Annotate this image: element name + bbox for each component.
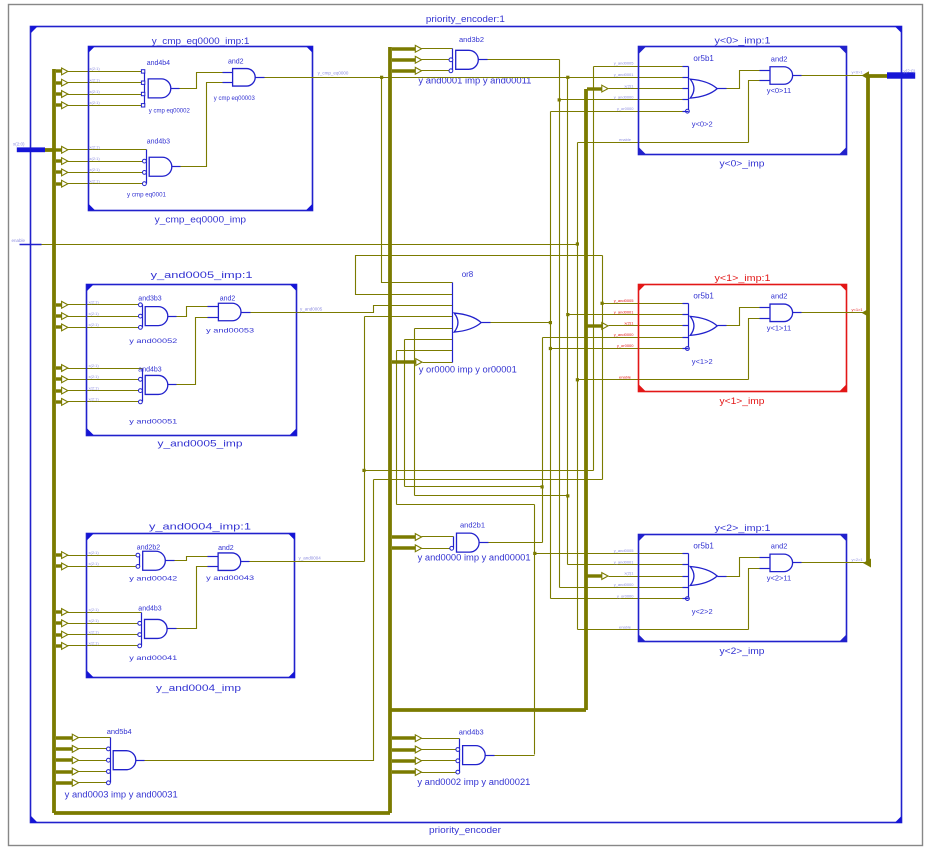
svg-text:y<2>1: y<2>1 (852, 557, 864, 562)
row into y0 pin5 (551, 111, 683, 113)
gate and2 y<0> (770, 67, 793, 85)
bus taps x(2) to or5b1 pin3 of three right blocks (587, 87, 602, 90)
svg-text:y and0000 imp y and00001: y and0000 imp y and00001 (418, 553, 531, 563)
svg-text:y_and0001: y_and0001 (614, 309, 635, 314)
input port enable (20, 244, 42, 246)
svg-text:enable: enable (619, 625, 632, 630)
or8 pin3 feeder from y_and0005 (297, 306, 453, 313)
svg-text:and2: and2 (220, 296, 236, 303)
bus taps to and5b4 inputs (56, 736, 73, 739)
svg-text:x(2:1): x(2:1) (90, 66, 101, 71)
block y_cmp_eq0000_imp (89, 47, 313, 211)
svg-text:x(2:1): x(2:1) (90, 89, 101, 94)
block y<0>_imp (639, 47, 847, 155)
wire or5b1 out to and2 pin1 y<1> (727, 308, 760, 326)
wire enable net (42, 244, 578, 246)
bus taps to and2b2 inputs (56, 553, 62, 556)
svg-text:y or0000 imp y or00001: y or0000 imp y or00001 (419, 365, 517, 375)
or8 pin2 feeder (356, 256, 603, 295)
crossover row 479 (374, 479, 603, 481)
svg-text:y_and0005: y_and0005 (300, 306, 323, 311)
gate and2 y_and0005 (218, 303, 241, 321)
svg-text:priority_encoder: priority_encoder (429, 825, 501, 835)
wire y_and0004 output row (250, 561, 365, 563)
svg-text:and4b4: and4b4 (147, 60, 170, 67)
svg-text:x(2:1): x(2:1) (90, 167, 101, 172)
svg-text:y and00051: y and00051 (129, 419, 178, 426)
wire and4b4 out to and2 pin1 (180, 73, 223, 89)
svg-text:and2: and2 (771, 292, 788, 301)
row into y2 pin4 (560, 587, 683, 589)
wire bus to output port (866, 74, 887, 78)
gate and2 y<1> (770, 304, 793, 322)
bus taps to and4b3 bottom inputs (392, 736, 416, 739)
bus x(2:0) center vertical (388, 47, 392, 813)
wire enable to and2 pin2 y<2> (749, 569, 760, 630)
svg-text:y and00041: y and00041 (129, 655, 178, 662)
wire net y_and0002 vertical (534, 505, 536, 755)
bus x(2:0) middle horizontal run (390, 708, 586, 712)
wire x bus port to left bus (45, 148, 56, 152)
row into y0 pin1 (594, 66, 683, 68)
svg-text:x(2)1: x(2)1 (624, 321, 634, 326)
svg-text:x(2:1): x(2:1) (89, 385, 100, 390)
svg-text:y_and0005: y_and0005 (614, 298, 635, 303)
gate and5b4 (110, 738, 112, 783)
bus x(2:0) right-center vertical (584, 89, 588, 710)
svg-text:y_and0000: y_and0000 (614, 95, 635, 100)
wire and5b4 output (145, 480, 374, 761)
gate and3b2 (452, 49, 454, 71)
gate and4b3 y_cmp (146, 150, 148, 184)
svg-text:y and00042: y and00042 (129, 576, 178, 583)
svg-text:or5b1: or5b1 (693, 291, 714, 300)
gate or5b1 y<2> (688, 554, 690, 599)
wire and3b2 output (488, 59, 560, 61)
wire y<0> output (802, 75, 865, 77)
svg-text:y_cmp_eq0000_imp:1: y_cmp_eq0000_imp:1 (152, 36, 250, 47)
svg-text:enable: enable (619, 137, 632, 142)
wire and3b3 out to and2 pin1 (177, 307, 208, 317)
wire net enable vertical (577, 143, 579, 630)
block y_and0004_imp (87, 534, 295, 678)
wire y_cmp_eq0000 output row (265, 77, 683, 79)
svg-text:and3b3: and3b3 (138, 296, 161, 303)
wire y<1> output (802, 312, 865, 314)
svg-text:x(2:1): x(2:1) (89, 311, 100, 316)
gate or8 (452, 283, 454, 363)
svg-text:y<0>_imp: y<0>_imp (720, 159, 765, 170)
svg-text:x(2:1): x(2:1) (89, 641, 100, 646)
row into y1 pin2 (568, 314, 683, 316)
wire net y_cmp_eq0000 vertical (567, 78, 569, 565)
svg-text:x(2:1): x(2:1) (89, 363, 100, 368)
svg-text:x(2:0): x(2:0) (13, 142, 25, 147)
block y_and0005_imp (87, 285, 297, 436)
row enable into y1 (578, 379, 749, 381)
row into y1 pin5 (551, 348, 683, 350)
crossover row 470 (365, 470, 594, 472)
wire and4b3 out to and2 pin2 (181, 83, 223, 167)
svg-text:y<0>_imp:1: y<0>_imp:1 (715, 36, 771, 47)
svg-text:y_and0000: y_and0000 (614, 332, 635, 337)
wire enable to and2 pin2 y<0> (749, 81, 760, 143)
wire and4b3 out to and2 pin2 (177, 567, 208, 629)
gate or5b1 y<1> (688, 304, 690, 349)
gate and2 y_cmp (233, 69, 256, 87)
svg-text:y_and0004_imp:1: y_and0004_imp:1 (149, 522, 251, 533)
or8 pin1 feeder from y_cmp (382, 78, 453, 283)
gate and2b2 (139, 556, 141, 567)
gate and4b4 (144, 72, 146, 106)
wire net y_and0000 vertical (542, 338, 544, 543)
svg-text:and2b1: and2b1 (460, 521, 485, 530)
svg-text:or5b1: or5b1 (693, 541, 714, 550)
crossover row 496 (415, 495, 568, 497)
gate or5b1 y<0> (688, 67, 690, 112)
svg-text:enable: enable (12, 238, 26, 243)
wire or5b1 out to and2 pin1 y<2> (727, 558, 760, 577)
bus taps to and4b3 y_and0004 inputs (56, 610, 62, 613)
svg-text:y<2>_imp:1: y<2>_imp:1 (715, 523, 771, 534)
bus taps to and4b3 y_and0005 inputs (56, 366, 62, 369)
wire and2b1 output (489, 542, 543, 544)
svg-text:and5b4: and5b4 (107, 727, 132, 736)
wire and4b3 bottom output (495, 755, 535, 757)
block y<2>_imp (639, 535, 847, 642)
crossover row 505 (397, 504, 535, 506)
row into y0 pin4 (560, 99, 683, 101)
svg-text:y and0003 imp y and00031: y and0003 imp y and00031 (65, 789, 178, 799)
svg-text:and2: and2 (218, 545, 234, 552)
svg-text:y_and0005: y_and0005 (614, 548, 635, 553)
bus taps to and4b3 y_cmp inputs (56, 148, 62, 151)
svg-text:y cmp eq00002: y cmp eq00002 (149, 108, 190, 115)
svg-text:y cmp eq00003: y cmp eq00003 (214, 95, 255, 102)
wire y_and0005 output row (251, 312, 297, 314)
gate and2 y_and0004 (218, 553, 241, 571)
svg-text:and4b3: and4b3 (459, 727, 484, 736)
svg-text:enable: enable (619, 375, 632, 380)
svg-text:and2: and2 (771, 542, 788, 551)
svg-text:and2: and2 (771, 54, 788, 63)
svg-text:x(2:1): x(2:1) (89, 550, 100, 555)
row into y2 pin5 (551, 598, 683, 600)
gate and3b3 (142, 305, 144, 328)
svg-text:x(2:1): x(2:1) (90, 100, 101, 105)
svg-text:y_cmp_eq0000: y_cmp_eq0000 (318, 71, 349, 76)
svg-text:x(2)1: x(2)1 (624, 83, 634, 88)
svg-text:y_or0000: y_or0000 (617, 343, 634, 348)
svg-text:y and0002 imp y and00021: y and0002 imp y and00021 (417, 777, 530, 787)
svg-text:y<2>_imp: y<2>_imp (720, 646, 765, 657)
wire net y_or0000 vertical (550, 112, 552, 599)
block y<1>_imp (639, 285, 847, 392)
row into y1 pin4 (543, 337, 683, 339)
svg-text:y_cmp_eq0000_imp: y_cmp_eq0000_imp (155, 215, 246, 226)
svg-text:x(2:1): x(2:1) (89, 397, 100, 402)
gate and4b3 bottom (459, 739, 461, 773)
svg-text:x(2:1): x(2:1) (89, 618, 100, 623)
svg-text:and2b2: and2b2 (137, 545, 160, 552)
wire net y_and0003 vertical (593, 67, 595, 471)
svg-text:y and00052: y and00052 (129, 338, 178, 345)
or8 pin4 feeder vertical from y_and0004 (364, 317, 366, 562)
svg-text:and4b3: and4b3 (138, 606, 161, 613)
gate and2b1 (453, 537, 455, 549)
wire or5b1 out to and2 pin1 y<0> (727, 71, 760, 89)
svg-text:x(2:1): x(2:1) (90, 78, 101, 83)
svg-text:y_and0005_imp:1: y_and0005_imp:1 (151, 270, 253, 281)
svg-text:x(2:1): x(2:1) (90, 145, 101, 150)
svg-text:y<1>2: y<1>2 (692, 357, 713, 366)
svg-text:x(2:1): x(2:1) (89, 374, 100, 379)
svg-text:y<1>_imp: y<1>_imp (720, 396, 765, 407)
svg-text:y(2:0): y(2:0) (904, 69, 916, 74)
svg-text:and2: and2 (228, 59, 244, 66)
svg-text:and3b2: and3b2 (459, 35, 484, 44)
svg-text:y<1>1: y<1>1 (852, 307, 864, 312)
svg-text:or5b1: or5b1 (693, 54, 714, 63)
svg-text:y<0>2: y<0>2 (692, 120, 713, 129)
svg-text:priority_encoder:1: priority_encoder:1 (426, 14, 505, 24)
wire net y_and0001 vertical (559, 60, 561, 588)
input port x(2:0) (17, 147, 45, 152)
row enable into y0 (578, 142, 749, 144)
svg-text:y<2>2: y<2>2 (692, 607, 713, 616)
row enable into y2 (578, 629, 749, 631)
wire y<2> output (802, 562, 865, 564)
svg-text:y_and0005_imp: y_and0005_imp (158, 439, 243, 450)
svg-text:x(2:1): x(2:1) (89, 300, 100, 305)
wire enable to and2 pin2 y<1> (749, 319, 760, 380)
wire and2b2 out to and2 pin1 (175, 557, 208, 561)
svg-text:y and00053: y and00053 (206, 328, 255, 335)
row into y2 pin1 (535, 553, 683, 555)
svg-text:y_and0004: y_and0004 (299, 556, 322, 561)
bus x(2:0) left vertical (52, 69, 56, 813)
wire and4b3 out to and2 pin2 (177, 318, 208, 385)
bus x(2:0) bottom run (54, 811, 390, 815)
svg-text:y_and0001: y_and0001 (614, 72, 635, 77)
or8 pin5 feeder vertical (414, 329, 416, 496)
wire net to y1 pin1 vertical (602, 256, 604, 480)
svg-text:y_and0001: y_and0001 (614, 559, 635, 564)
bus taps to and2b1 inputs (392, 535, 416, 538)
svg-text:y_or0000: y_or0000 (617, 593, 634, 598)
svg-text:y<1>_imp:1: y<1>_imp:1 (715, 273, 771, 284)
svg-text:y<0>11: y<0>11 (767, 86, 791, 95)
svg-text:y_or0000: y_or0000 (617, 106, 634, 111)
crossover row 487 (405, 486, 543, 488)
svg-text:y cmp eq0001: y cmp eq0001 (127, 191, 166, 198)
svg-text:y_and0004_imp: y_and0004_imp (156, 683, 241, 694)
svg-text:y_and0000: y_and0000 (614, 582, 635, 587)
gate and4b3 y_and0004 (141, 613, 143, 646)
wire or8 output (491, 322, 551, 324)
bus taps to and3b2 inputs (392, 47, 416, 50)
svg-text:y<2>11: y<2>11 (767, 573, 791, 582)
svg-text:and4b3: and4b3 (138, 366, 161, 373)
svg-text:x(2:1): x(2:1) (89, 561, 100, 566)
or8 pin6 feeder vertical (404, 340, 406, 487)
bus y(2:0) right vertical (866, 76, 870, 563)
svg-text:y<1>11: y<1>11 (767, 323, 791, 332)
svg-text:x(2:1): x(2:1) (90, 156, 101, 161)
gate and2 y<2> (770, 554, 793, 572)
svg-text:y and00043: y and00043 (206, 575, 255, 582)
svg-text:x(2:1): x(2:1) (89, 322, 100, 327)
svg-text:and4b3: and4b3 (147, 138, 170, 145)
svg-text:x(2:1): x(2:1) (89, 607, 100, 612)
row into y2 pin2 (568, 564, 683, 566)
svg-text:or8: or8 (462, 270, 474, 279)
svg-text:x(2:1): x(2:1) (90, 179, 101, 184)
svg-text:x(2:1): x(2:1) (89, 629, 100, 634)
bus tap to or8 input 8 (392, 360, 416, 363)
row into y1 pin1 (603, 303, 683, 305)
svg-text:y_and0005: y_and0005 (614, 61, 635, 66)
bus taps to and4b4 inputs (56, 69, 62, 72)
svg-text:y<0>1: y<0>1 (852, 70, 864, 75)
svg-text:x(2)1: x(2)1 (624, 571, 634, 576)
or8 pin7 feeder vertical (396, 351, 398, 505)
gate and4b3 y_and0005 (142, 369, 144, 402)
bus taps to and3b3 inputs (56, 303, 62, 306)
output port y(2:0) (887, 72, 915, 78)
